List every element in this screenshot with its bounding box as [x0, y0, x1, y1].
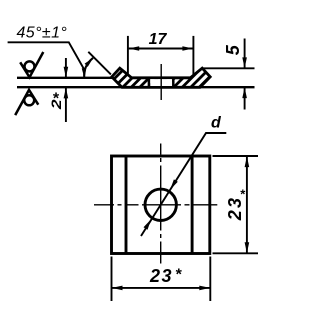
svg-text:45°±1°: 45°±1° [17, 25, 68, 42]
plate top surface line (section view, extended left for 2* dimension) [17, 77, 190, 79]
plan vertical centerline (dash-dot) [160, 144, 162, 264]
bend fold line right (plan) [191, 156, 194, 254]
dimension 5 arrow upper [242, 57, 247, 68]
hole left edge (section) [148, 77, 151, 89]
dimension 23* right extension line top [213, 155, 259, 157]
angle arc arrow bottom [82, 68, 87, 79]
plan view square plate outline [112, 156, 210, 254]
angle label leader line with shelf [8, 42, 85, 69]
dimension 23* bottom extension line left [111, 257, 113, 302]
leader arrow upper (on circle) [170, 179, 178, 190]
dimension 2* line lower segment [65, 88, 67, 122]
svg-text:17: 17 [149, 31, 168, 48]
dimension 23* bottom extension line right [209, 257, 211, 302]
dimension 23* right line [246, 157, 248, 254]
section hatching [93, 40, 247, 100]
svg-text:*: * [52, 91, 59, 108]
svg-text:d: d [211, 115, 222, 132]
part section outline (plate with 45-deg bent edges) [112, 68, 210, 87]
dimension 2* arrow upper [64, 67, 69, 78]
dimension 23* right arrow top [245, 156, 250, 167]
angle dimension arc [84, 58, 93, 78]
dimension 23* bottom arrow left [112, 286, 123, 291]
dimension 17 line [129, 48, 193, 50]
dimension 23* right arrow bottom [245, 242, 250, 253]
dimension 17 extension line left [127, 36, 129, 75]
dimension 23* bottom line [112, 287, 210, 289]
section axis centerline [160, 64, 162, 100]
hole gap in section [150, 79, 172, 86]
leader arrow lower (on circle) [144, 219, 152, 230]
hole right edge (section) [172, 77, 175, 89]
svg-text:23: 23 [149, 266, 173, 286]
surface roughness symbol upper (without material removal) [20, 52, 43, 77]
surface roughness symbol lower (without material removal) [15, 90, 38, 115]
dimension 23* bottom arrow right [199, 286, 210, 291]
svg-text:5: 5 [223, 44, 243, 55]
dimension 5 arrow lower [242, 87, 247, 98]
hole circle d (plan) [145, 189, 176, 220]
dimension 5 extension line top [203, 67, 255, 69]
dimension 5 line lower segment [244, 87, 246, 109]
dimension 17 arrow right [182, 46, 193, 51]
dimension 2* line upper segment [65, 58, 67, 77]
svg-text:*: * [175, 267, 182, 284]
dimension 2* arrow lower [64, 88, 69, 99]
dimension 17 arrow left [128, 46, 139, 51]
angle arc arrow top [85, 58, 94, 67]
chamfer 45-deg extension line [88, 52, 111, 75]
dimension 17 extension line right [192, 36, 194, 75]
dimension 23* right extension line bottom [213, 252, 259, 254]
plan horizontal centerline (dash-dot) [94, 204, 217, 206]
plate bottom surface line (section view, extended both sides) [17, 86, 255, 88]
hole diameter leader line with shelf [141, 133, 226, 236]
dimension 5 line upper segment [244, 39, 246, 69]
bend fold line left (plan) [125, 156, 128, 254]
